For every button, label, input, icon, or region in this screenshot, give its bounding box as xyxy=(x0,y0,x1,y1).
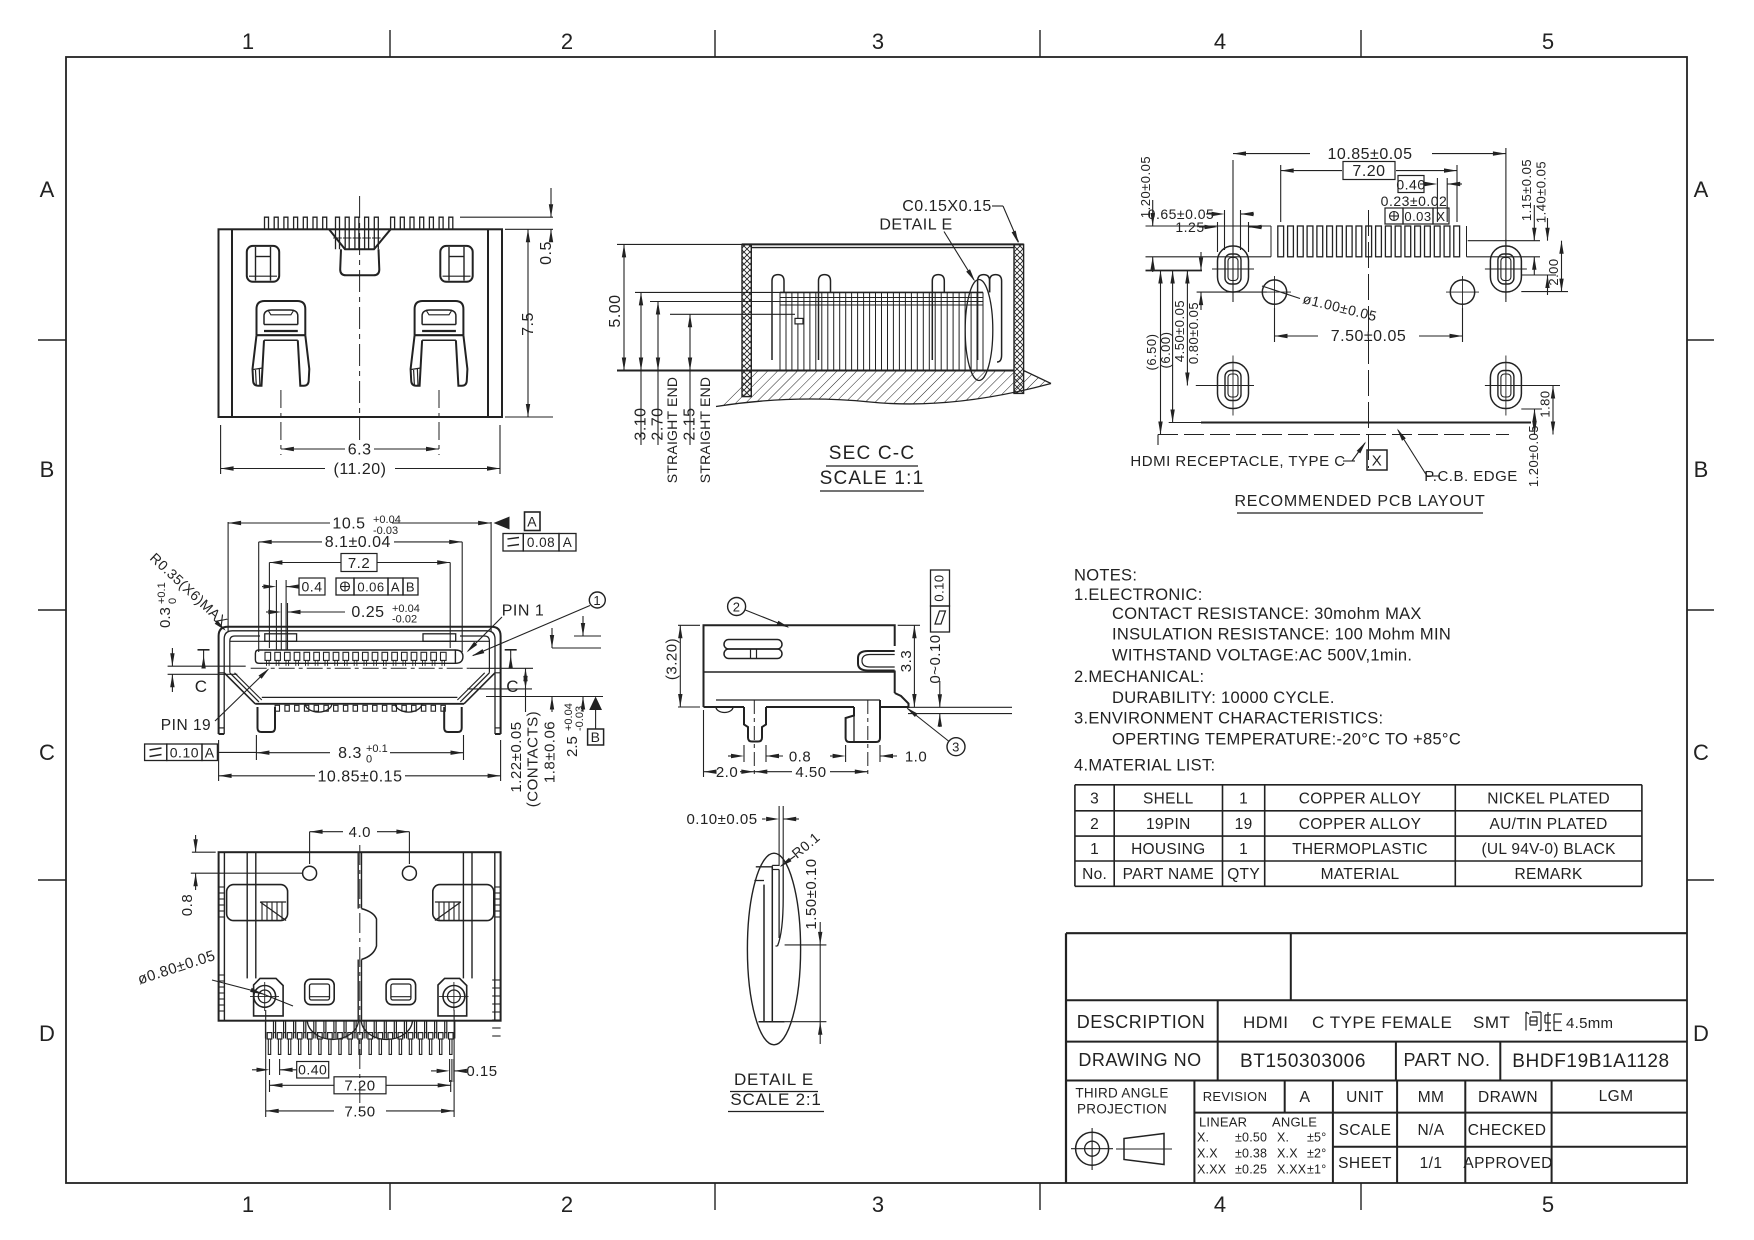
sec C-C last pin curve xyxy=(990,275,1002,362)
svg-text:7.20: 7.20 xyxy=(344,1077,375,1094)
svg-text:BHDF19B1A1128: BHDF19B1A1128 xyxy=(1512,1051,1669,1072)
svg-text:0.08: 0.08 xyxy=(527,535,555,550)
svg-text:REMARK: REMARK xyxy=(1515,866,1583,883)
bottom view lower post blocks xyxy=(254,978,284,1016)
bottom view dim 4.0 xyxy=(309,832,311,864)
balloon 3 with leader xyxy=(947,738,965,756)
svg-text:A: A xyxy=(391,580,400,595)
svg-text:0: 0 xyxy=(167,598,179,604)
top view dim 0.3 left xyxy=(168,665,246,667)
pcb dim 1.25 slot outer xyxy=(1217,222,1219,252)
front view dim 0.5 xyxy=(460,216,553,218)
svg-text:PART NO.: PART NO. xyxy=(1403,1050,1490,1070)
svg-text:1.40±0.05: 1.40±0.05 xyxy=(1534,161,1549,223)
side view right solder leg xyxy=(846,707,880,742)
svg-text:0.03: 0.03 xyxy=(1404,209,1431,224)
top view dim 1.8 xyxy=(551,628,553,648)
svg-text:DESCRIPTION: DESCRIPTION xyxy=(1077,1012,1206,1032)
svg-text:4.50±0.05: 4.50±0.05 xyxy=(1172,300,1187,362)
svg-text:NICKEL PLATED: NICKEL PLATED xyxy=(1487,790,1610,807)
svg-text:0.80±0.05: 0.80±0.05 xyxy=(1186,302,1201,364)
zone ticks right xyxy=(1687,339,1714,341)
bottom view dim 0.15 xyxy=(449,1059,451,1082)
svg-text:X.XX: X.XX xyxy=(1197,1163,1227,1177)
front view top solder teeth row xyxy=(265,217,269,229)
top view section C marks xyxy=(198,649,210,651)
svg-text:2.15: 2.15 xyxy=(682,407,699,440)
svg-text:PIN 19: PIN 19 xyxy=(161,717,211,734)
svg-text:DURABILITY: 10000 CYCLE.: DURABILITY: 10000 CYCLE. xyxy=(1112,689,1335,707)
top view dim 2.5 xyxy=(582,616,584,636)
svg-text:B: B xyxy=(40,457,55,482)
pcb dim 1.80 xyxy=(1521,385,1560,387)
top view shell outline xyxy=(219,627,501,734)
svg-text:0.4: 0.4 xyxy=(302,579,323,595)
svg-text:0.3: 0.3 xyxy=(157,607,174,628)
top view right ext lines xyxy=(552,647,601,649)
top view chamfer left xyxy=(224,673,255,704)
pcb dim 1.20 bottom xyxy=(1521,408,1542,410)
svg-text:HDMI RECEPTACLE, TYPE C: HDMI RECEPTACLE, TYPE C xyxy=(1130,453,1345,470)
svg-text:2.00: 2.00 xyxy=(1546,258,1561,285)
pcb dim 10.85 top xyxy=(1232,160,1234,302)
svg-text:A: A xyxy=(205,745,215,761)
side view seating plane ext xyxy=(895,706,1012,708)
svg-text:4.MATERIAL LIST:: 4.MATERIAL LIST: xyxy=(1074,757,1215,775)
side view dim 0~0.10 xyxy=(939,681,941,707)
svg-text:2.0: 2.0 xyxy=(716,764,738,781)
svg-text:1.ELECTRONIC:: 1.ELECTRONIC: xyxy=(1074,586,1203,604)
svg-text:3: 3 xyxy=(872,29,884,54)
svg-text:4.0: 4.0 xyxy=(349,824,371,841)
svg-text:1.8±0.06: 1.8±0.06 xyxy=(542,721,559,783)
svg-text:COPPER ALLOY: COPPER ALLOY xyxy=(1299,790,1421,807)
svg-text:SHEET: SHEET xyxy=(1338,1155,1392,1172)
front view shell body xyxy=(219,229,503,417)
front view vertical centerline xyxy=(359,196,361,443)
top view dim 7.2 boxed xyxy=(268,563,270,649)
sec C-C dim 2.70 xyxy=(650,301,830,303)
svg-text:No.: No. xyxy=(1082,866,1107,883)
front view center tongue xyxy=(340,249,379,275)
svg-text:±5°: ±5° xyxy=(1307,1131,1326,1145)
pcb dim 7.20 boxed xyxy=(1280,165,1282,222)
title block borders xyxy=(1066,932,1687,934)
side view left solder leg xyxy=(744,707,766,742)
fcf flatness 0.10 rotated xyxy=(931,570,950,606)
bottom view center keyway xyxy=(357,852,359,908)
bottom view mount holes 4.0 apart xyxy=(303,866,317,880)
zone ticks top xyxy=(389,30,391,57)
svg-text:A: A xyxy=(1694,177,1709,202)
svg-text:DRAWING NO: DRAWING NO xyxy=(1078,1050,1201,1070)
svg-text:PART NAME: PART NAME xyxy=(1123,866,1214,883)
svg-text:X: X xyxy=(1436,209,1445,224)
pcb vias 1.00 dia xyxy=(1262,280,1286,304)
svg-text:C: C xyxy=(39,740,55,765)
svg-text:STRAIGHT END: STRAIGHT END xyxy=(664,377,680,483)
front view center dip with pins xyxy=(329,229,391,249)
svg-text:1: 1 xyxy=(593,593,601,608)
side view right hook tab xyxy=(858,651,895,671)
svg-text:X.X: X.X xyxy=(1197,1147,1218,1161)
svg-text:3: 3 xyxy=(872,1192,884,1217)
svg-text:CHECKED: CHECKED xyxy=(1468,1122,1547,1139)
zone ticks left xyxy=(38,339,66,341)
svg-text:2: 2 xyxy=(1090,816,1099,833)
sec C-C spring loop pins xyxy=(772,275,784,360)
boxed X datum label xyxy=(1367,450,1387,470)
svg-text:LGM: LGM xyxy=(1599,1088,1634,1105)
svg-text:AU/TIN PLATED: AU/TIN PLATED xyxy=(1490,816,1608,833)
svg-text:PIN 1: PIN 1 xyxy=(502,603,545,620)
svg-text:1: 1 xyxy=(1090,841,1099,858)
svg-text:A: A xyxy=(40,177,55,202)
bottom view center dash-dot line xyxy=(359,845,361,1115)
balloon 1 with leader xyxy=(589,592,605,608)
svg-text:1.80: 1.80 xyxy=(1538,390,1553,417)
detail E dim 0.10 vertical ext xyxy=(778,806,780,866)
svg-text:APPROVED: APPROVED xyxy=(1463,1155,1552,1172)
top view rear bumps xyxy=(305,703,332,712)
sec C-C dim 5.00 xyxy=(617,243,742,245)
svg-text:UNIT: UNIT xyxy=(1346,1089,1384,1106)
svg-text:0.10: 0.10 xyxy=(170,745,199,761)
top view dim 0.25 xyxy=(280,603,282,650)
svg-text:8.3: 8.3 xyxy=(338,745,362,762)
svg-text:2: 2 xyxy=(733,600,741,615)
pcb dia 1.00 label xyxy=(1262,286,1300,299)
post circles xyxy=(254,986,276,1008)
svg-text:X.X: X.X xyxy=(1277,1147,1298,1161)
svg-text:3.ENVIRONMENT CHARACTERISTICS: 3.ENVIRONMENT CHARACTERISTICS: xyxy=(1074,710,1383,728)
svg-text:1.0: 1.0 xyxy=(905,749,927,766)
svg-text:X.XX: X.XX xyxy=(1277,1163,1307,1177)
pcb dim 0.65 slot inner xyxy=(1224,210,1226,250)
svg-text:D: D xyxy=(39,1021,55,1046)
front view spring contact at x=280.9 xyxy=(257,301,306,335)
bottom view rail serrations left xyxy=(219,886,225,888)
svg-text:DRAWN: DRAWN xyxy=(1478,1089,1538,1106)
pcb dim 7.50 xyxy=(1274,308,1276,342)
svg-text:±0.38: ±0.38 xyxy=(1235,1147,1267,1161)
zone ticks bottom xyxy=(389,1183,391,1210)
svg-text:X.: X. xyxy=(1197,1131,1209,1145)
pcb dim 2.00 xyxy=(1521,291,1568,293)
bottom view small windows xyxy=(305,979,335,1005)
front view left latch window xyxy=(247,246,279,282)
side view bottom bump xyxy=(716,707,733,713)
svg-text:THERMOPLASTIC: THERMOPLASTIC xyxy=(1292,841,1428,858)
svg-text:0.15: 0.15 xyxy=(466,1063,497,1080)
svg-text:0.23±0.02: 0.23±0.02 xyxy=(1381,193,1448,209)
svg-text:RECOMMENDED PCB LAYOUT: RECOMMENDED PCB LAYOUT xyxy=(1234,493,1485,510)
svg-text:2: 2 xyxy=(561,1192,573,1217)
svg-text:A: A xyxy=(1299,1089,1310,1106)
svg-text:7.50±0.05: 7.50±0.05 xyxy=(1331,328,1407,345)
side view dim (3.20) xyxy=(678,624,700,626)
svg-text:C: C xyxy=(195,677,208,696)
detail E dim 1.50 xyxy=(785,944,827,946)
pcb pad row end line xyxy=(1270,226,1272,257)
svg-text:3: 3 xyxy=(1090,790,1099,807)
svg-text:(6.00): (6.00) xyxy=(1158,332,1173,369)
svg-text:THIRD ANGLE: THIRD ANGLE xyxy=(1075,1086,1168,1101)
top view contact strip xyxy=(255,650,264,663)
svg-text:C TYPE FEMALE: C TYPE FEMALE xyxy=(1312,1013,1452,1032)
svg-text:1.50±0.10: 1.50±0.10 xyxy=(803,858,820,929)
fcf parallel 0.08 A xyxy=(503,534,523,552)
svg-text:1/1: 1/1 xyxy=(1420,1155,1443,1172)
svg-text:3.10: 3.10 xyxy=(633,407,650,440)
svg-text:LINEAR: LINEAR xyxy=(1199,1115,1247,1130)
bottom view upper latch blocks xyxy=(227,885,288,921)
svg-text:1: 1 xyxy=(242,1192,254,1217)
svg-text:X: X xyxy=(1372,453,1383,470)
svg-text:-0.02: -0.02 xyxy=(392,614,417,626)
svg-text:X.: X. xyxy=(1277,1131,1289,1145)
top view top tabs xyxy=(265,634,297,642)
side view dim 2.0 xyxy=(703,710,705,777)
top view dim 8.1 xyxy=(258,542,260,652)
pcb mount slots (4 stadium) xyxy=(1218,246,1249,292)
datum A flag at 10.5 dim xyxy=(494,517,510,530)
svg-text:(CONTACTS): (CONTACTS) xyxy=(525,711,542,807)
detail E contact section lines xyxy=(763,885,765,1022)
top view dim 8.3 xyxy=(255,735,257,760)
svg-text:±0.25: ±0.25 xyxy=(1235,1163,1267,1177)
svg-text:DETAIL E: DETAIL E xyxy=(734,1070,814,1089)
bottom view side rails xyxy=(223,852,225,1021)
side view bottom right solder tab xyxy=(880,693,909,707)
svg-text:1.25: 1.25 xyxy=(1175,219,1204,235)
svg-text:4.50: 4.50 xyxy=(795,764,826,781)
svg-text:B: B xyxy=(1694,457,1709,482)
top view dim 10.5 xyxy=(227,522,229,632)
front view right latch window xyxy=(440,246,472,282)
projection symbol trapezoid xyxy=(1124,1134,1164,1165)
svg-text:0.06: 0.06 xyxy=(357,580,384,595)
pcb fcf 0.03 X xyxy=(1385,208,1403,224)
sec C-C dim 3.10 xyxy=(635,291,780,293)
front view dim 6.3 xyxy=(281,448,345,450)
svg-text:SCALE: SCALE xyxy=(1339,1122,1392,1139)
top view shell inner lines xyxy=(224,631,495,734)
top view dim 0.4 boxed xyxy=(275,580,277,650)
svg-text:(UL 94V-0) BLACK: (UL 94V-0) BLACK xyxy=(1481,841,1616,858)
svg-text:N/A: N/A xyxy=(1417,1122,1444,1139)
side view dim 4.50 xyxy=(754,771,792,773)
sec C-C top plate xyxy=(742,243,1024,245)
top view dim 10.85±0.15 xyxy=(218,740,220,781)
bottom view rail serrations right xyxy=(495,886,501,888)
front view spring centerlines xyxy=(280,390,282,455)
svg-text:1.15±0.05: 1.15±0.05 xyxy=(1519,159,1534,221)
svg-text:19: 19 xyxy=(1235,816,1253,833)
svg-text:7.50: 7.50 xyxy=(344,1103,375,1120)
svg-text:0.10: 0.10 xyxy=(932,574,947,601)
pcb pads row (19 pads) xyxy=(1278,226,1284,257)
svg-text:0.25: 0.25 xyxy=(351,604,384,621)
svg-text:-0.03: -0.03 xyxy=(574,706,586,731)
svg-text:HDMI: HDMI xyxy=(1243,1013,1288,1032)
svg-text:3: 3 xyxy=(952,740,960,755)
bottom view dim 7.50 xyxy=(265,1010,267,1117)
pcb dim 0.40 boxed xyxy=(1436,178,1438,222)
chinese glyphs 间距 simplified xyxy=(1526,1012,1541,1031)
top view solder legs xyxy=(258,707,276,732)
svg-text:7.2: 7.2 xyxy=(348,555,370,572)
bottom view dim 7.20 boxed xyxy=(269,1080,271,1092)
svg-text:5: 5 xyxy=(1542,29,1554,54)
svg-text:PROJECTION: PROJECTION xyxy=(1077,1102,1167,1117)
svg-text:QTY: QTY xyxy=(1227,866,1260,883)
svg-text:1: 1 xyxy=(1239,790,1248,807)
projection symbol circle-cross xyxy=(1076,1132,1109,1165)
svg-text:4: 4 xyxy=(1214,1192,1226,1217)
bottom view dim 0.40 boxed xyxy=(269,1059,271,1075)
svg-text:D: D xyxy=(1693,1021,1709,1046)
pcb left vertical dims 6.50/6.00/4.50/0.80 xyxy=(1160,271,1162,435)
top view rear contact tails comb xyxy=(275,705,279,711)
svg-text:WITHSTAND VOLTAGE:AC 500V,1m: WITHSTAND VOLTAGE:AC 500V,1min. xyxy=(1112,647,1412,665)
pcb edge solid line xyxy=(1201,422,1531,424)
svg-text:5: 5 xyxy=(1542,1192,1554,1217)
svg-text:CONTACT RESISTANCE: 30mohm: CONTACT RESISTANCE: 30mohm MAX xyxy=(1112,605,1422,623)
side view body outline xyxy=(704,625,895,707)
svg-text:DETAIL E: DETAIL E xyxy=(879,217,952,234)
svg-text:7.20: 7.20 xyxy=(1352,163,1385,180)
svg-text:(6.50): (6.50) xyxy=(1144,334,1159,371)
front view dim (11.20) xyxy=(220,425,222,474)
svg-text:±2°: ±2° xyxy=(1307,1147,1326,1161)
svg-text:4.5mm: 4.5mm xyxy=(1566,1015,1613,1032)
svg-text:(11.20): (11.20) xyxy=(333,461,386,478)
svg-text:SCALE 1:1: SCALE 1:1 xyxy=(820,468,925,489)
front view dim 7.5 xyxy=(527,229,529,417)
datum fcf 0.10 A bottom left xyxy=(145,744,167,761)
sec C-C break wavy line xyxy=(716,384,1051,407)
svg-text:(3.20): (3.20) xyxy=(664,638,681,680)
material list table xyxy=(1075,784,1642,786)
svg-text:2.MECHANICAL:: 2.MECHANICAL: xyxy=(1074,668,1204,686)
balloon 2 with leader xyxy=(728,598,746,616)
svg-text:COPPER ALLOY: COPPER ALLOY xyxy=(1299,816,1421,833)
svg-text:INSULATION RESISTANCE: 100: INSULATION RESISTANCE: 100 Mohm MIN xyxy=(1112,626,1451,644)
svg-text:10.5: 10.5 xyxy=(332,516,365,533)
svg-text:SCALE 2:1: SCALE 2:1 xyxy=(730,1090,821,1109)
svg-text:ANGLE: ANGLE xyxy=(1272,1115,1317,1130)
detail E scope ellipse xyxy=(747,853,800,1045)
svg-text:MATERIAL: MATERIAL xyxy=(1321,866,1400,883)
svg-text:±1°: ±1° xyxy=(1307,1163,1326,1177)
svg-text:19PIN: 19PIN xyxy=(1146,816,1191,833)
front view spring contact at x=439.0 xyxy=(415,301,464,335)
svg-text:0.40: 0.40 xyxy=(1396,177,1425,193)
detail E scope ellipse on sec C-C xyxy=(965,280,993,381)
svg-text:1: 1 xyxy=(1239,841,1248,858)
svg-text:0~0.10: 0~0.10 xyxy=(927,634,944,683)
bottom view outer body xyxy=(219,852,501,1021)
sec C-C contact latch detail xyxy=(795,318,803,324)
datum B flag xyxy=(589,697,602,711)
svg-text:A: A xyxy=(527,514,537,530)
svg-text:A: A xyxy=(563,535,573,550)
svg-text:6.3: 6.3 xyxy=(348,442,372,459)
svg-text:B: B xyxy=(591,729,601,745)
svg-text:MM: MM xyxy=(1418,1089,1445,1106)
svg-text:1: 1 xyxy=(242,29,254,54)
svg-text:0: 0 xyxy=(366,754,372,766)
sec C-C dim 2.15 xyxy=(670,313,795,315)
svg-text:7.5: 7.5 xyxy=(520,312,537,336)
svg-text:10.85±0.05: 10.85±0.05 xyxy=(1328,146,1413,163)
top view fcf 0.06 A B xyxy=(336,578,354,595)
svg-text:8.1±0.04: 8.1±0.04 xyxy=(325,534,391,551)
svg-text:STRAIGHT END: STRAIGHT END xyxy=(697,377,713,483)
svg-text:0.5: 0.5 xyxy=(538,241,555,265)
sec C-C left wall hatched xyxy=(742,244,751,396)
sec C-C floor hatched area xyxy=(716,371,1051,407)
svg-text:SMT: SMT xyxy=(1473,1013,1510,1032)
svg-text:REVISION: REVISION xyxy=(1203,1089,1268,1104)
pcb left dims: 1.20 pad length xyxy=(1146,225,1272,227)
svg-text:OPERTING TEMPERATURE:-20°C T: OPERTING TEMPERATURE:-20°C TO +85°C xyxy=(1112,731,1461,749)
side view latch capsule xyxy=(724,640,782,650)
top view bottom edges xyxy=(262,696,458,698)
top view dim 1.22 contacts xyxy=(525,668,527,712)
svg-text:0.8: 0.8 xyxy=(789,749,811,766)
top view centerline horizontal xyxy=(251,667,470,669)
svg-text:±0.50: ±0.50 xyxy=(1235,1131,1267,1145)
pcb center dashed line xyxy=(1368,210,1370,468)
svg-text:C: C xyxy=(506,677,519,696)
svg-text:10.85±0.15: 10.85±0.15 xyxy=(318,768,403,785)
pcb reference shell line left xyxy=(1146,270,1203,272)
latch block inner combs xyxy=(260,902,286,921)
svg-text:NOTES:: NOTES: xyxy=(1074,567,1137,585)
side view dim 0.8 xyxy=(743,745,745,762)
top view flange feet xyxy=(219,727,225,729)
svg-text:0.8: 0.8 xyxy=(179,894,196,916)
bottom view 19 pins xyxy=(265,1021,267,1039)
svg-text:1.20±0.05: 1.20±0.05 xyxy=(1526,425,1541,487)
side view dim 1.0 xyxy=(845,745,847,762)
sec C-C floor line xyxy=(617,370,1014,372)
pcb right dims 1.15/1.40/2.00 xyxy=(1468,240,1540,242)
svg-text:1.22±0.05: 1.22±0.05 xyxy=(508,721,525,792)
svg-text:C: C xyxy=(1693,740,1709,765)
svg-text:0.40: 0.40 xyxy=(298,1062,327,1078)
svg-text:2.5: 2.5 xyxy=(564,736,581,757)
top view chamfer right xyxy=(464,673,495,704)
svg-text:SHELL: SHELL xyxy=(1143,790,1194,807)
svg-text:SEC C-C: SEC C-C xyxy=(829,443,916,464)
svg-text:C0.15X0.15: C0.15X0.15 xyxy=(902,198,992,215)
svg-text:BT150303006: BT150303006 xyxy=(1240,1051,1366,1072)
svg-text:3.3: 3.3 xyxy=(898,650,915,672)
bottom view dim 0.8 left xyxy=(192,851,216,853)
bottom view big arcs behind pins xyxy=(307,1021,358,1040)
svg-text:2: 2 xyxy=(561,29,573,54)
svg-text:HOUSING: HOUSING xyxy=(1131,841,1205,858)
svg-text:0.10±0.05: 0.10±0.05 xyxy=(686,811,757,828)
pcb edge dashed line xyxy=(1158,434,1509,436)
side view leg centerlines xyxy=(753,700,755,777)
svg-text:4: 4 xyxy=(1214,29,1226,54)
svg-text:5.00: 5.00 xyxy=(607,294,624,327)
sec C-C contact comb xyxy=(780,291,983,293)
